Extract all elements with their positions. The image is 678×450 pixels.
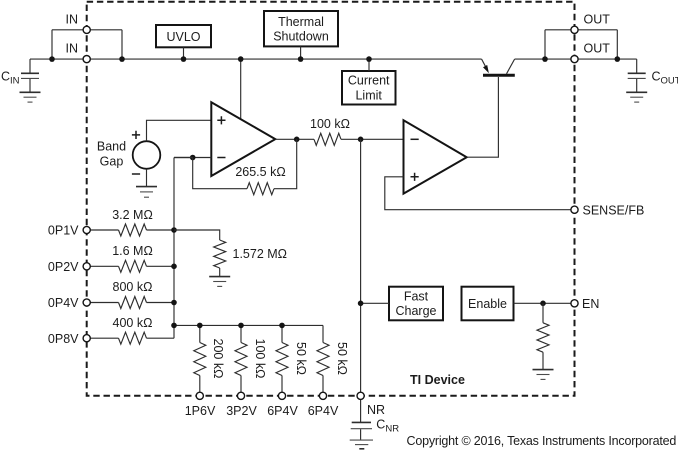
ground (CNR) — [350, 440, 373, 449]
wire R 3.2M to bus — [147, 229, 175, 231]
node 0P4V tap — [171, 300, 177, 306]
node 50k rail junction — [279, 323, 285, 329]
wire 1.572M branch — [174, 230, 220, 240]
wire NR vertical line — [360, 139, 362, 396]
node EN resistor junction — [540, 301, 546, 307]
resistor 200k (1P6V) — [194, 343, 206, 376]
wire rail to R 200k — [199, 325, 201, 342]
resistor 100k (between amps) — [314, 133, 341, 145]
node U1 output junction — [294, 137, 300, 143]
node current limit junction — [366, 56, 372, 62]
wire Current Limit stem — [368, 59, 370, 71]
wire R 50k b to 6P4V pin — [322, 376, 324, 396]
wire Fast Charge to NR line — [361, 302, 389, 304]
capacitor CIN — [21, 59, 39, 91]
pin OUT (bottom) — [571, 56, 578, 63]
svg-text:3.2 MΩ: 3.2 MΩ — [112, 208, 153, 222]
svg-text:Copyright © 2016, Texas Instru: Copyright © 2016, Texas Instruments Inco… — [407, 434, 677, 448]
wire band gap to ground — [146, 169, 148, 186]
svg-text:IN: IN — [66, 41, 79, 55]
pin 0P8V — [83, 335, 90, 342]
resistor EN pulldown — [537, 323, 549, 352]
wire U1 inverting input — [174, 157, 211, 159]
svg-text:100 kΩ: 100 kΩ — [310, 117, 350, 131]
wire R 400k to bus — [147, 337, 175, 339]
wire band gap to op-amp U1 + input — [147, 120, 212, 141]
wire 0P8V pin to R 400k — [87, 337, 119, 339]
band gap reference source — [133, 141, 161, 169]
resistor 800k (0P4V) — [119, 297, 147, 309]
pin 0P1V — [83, 226, 90, 233]
svg-text:6P4V: 6P4V — [267, 404, 298, 418]
wire U1 feedback drop — [274, 139, 297, 188]
svg-text:Enable: Enable — [468, 297, 507, 311]
svg-text:3P2V: 3P2V — [226, 404, 257, 418]
resistor 400k (0P8V) — [119, 332, 147, 344]
capacitor CNR — [351, 396, 372, 440]
transistor Q1 base bar — [483, 74, 515, 77]
capacitor COUT — [628, 59, 646, 91]
wire collector rail to COUT — [515, 58, 637, 60]
U1 plus sign — [217, 116, 225, 124]
svg-text:1.6 MΩ: 1.6 MΩ — [112, 244, 153, 258]
ground (1.572M) — [209, 277, 230, 287]
svg-text:IN: IN — [66, 13, 79, 27]
wire op-amp U1 power stem — [240, 59, 242, 119]
wire OUT1 branch (top output loop) — [545, 30, 617, 59]
node U1 supply junction — [238, 56, 244, 62]
node rail-bus junction — [171, 323, 177, 329]
node U1 inverting input junction — [190, 155, 196, 161]
op-amp U1 (error amp) — [211, 102, 275, 176]
wire R 50k a to 6P4V pin — [281, 376, 283, 396]
U2 plus sign — [411, 173, 419, 181]
pin EN — [571, 300, 578, 307]
svg-text:100 kΩ: 100 kΩ — [253, 339, 267, 379]
svg-text:Band: Band — [97, 140, 126, 154]
pin IN (top) — [83, 26, 90, 33]
wire divider bus from inverting node — [174, 158, 193, 339]
svg-text:Gap: Gap — [100, 154, 124, 168]
U2 minus sign — [411, 138, 419, 140]
Thermal Shutdown box — [264, 11, 338, 46]
node OUT loop left junction — [542, 56, 548, 62]
U1 minus sign — [217, 157, 225, 159]
pin 6P4V (a) — [278, 392, 285, 399]
node Fast Charge junction — [358, 301, 364, 307]
wire 0P4V pin to R 800k — [87, 302, 119, 304]
wire IN1 branch (top input loop) — [52, 30, 122, 59]
Enable box — [462, 287, 514, 321]
svg-text:EN: EN — [582, 297, 599, 311]
UVLO box — [156, 25, 211, 47]
svg-text:6P4V: 6P4V — [308, 404, 339, 418]
svg-text:SENSE/FB: SENSE/FB — [583, 203, 645, 217]
resistor 50k (6P4V b) — [317, 343, 329, 376]
svg-text:200 kΩ: 200 kΩ — [211, 339, 225, 379]
wire U1 output — [275, 138, 314, 140]
node 200k rail junction — [197, 323, 203, 329]
node IN loop left junction — [49, 56, 55, 62]
svg-text:400 kΩ: 400 kΩ — [113, 316, 153, 330]
svg-text:OUT: OUT — [584, 41, 611, 55]
wire R 1.572M to ground — [219, 268, 221, 276]
svg-text:UVLO: UVLO — [166, 30, 200, 44]
svg-text:50 kΩ: 50 kΩ — [294, 342, 308, 375]
transistor Q1 emitter with arrow — [482, 59, 487, 68]
pin 0P2V — [83, 263, 90, 270]
wire rail to R 50k a — [281, 325, 283, 342]
resistor 265.5k feedback — [247, 183, 274, 195]
op-amp U2 (buffer) — [404, 120, 467, 193]
node 0P2V tap — [171, 264, 177, 270]
svg-text:NR: NR — [367, 403, 385, 417]
TI Device dashed boundary box — [87, 2, 575, 396]
pin SENSE/FB — [571, 206, 578, 213]
wire 0P2V pin to R 1.6M — [87, 265, 119, 267]
wire R 100k to 3P2V pin — [240, 376, 242, 396]
svg-text:50 kΩ: 50 kΩ — [335, 342, 349, 375]
Fast Charge box — [389, 287, 443, 321]
pin 1P6V — [196, 392, 203, 399]
svg-text:Thermal: Thermal — [278, 15, 324, 29]
node thermal shutdown junction — [298, 56, 304, 62]
node OUT loop right junction — [615, 56, 621, 62]
wire EN node to pulldown resistor — [542, 303, 544, 323]
Current Limit box — [342, 71, 396, 105]
pin NR — [357, 392, 364, 399]
pin 3P2V — [237, 392, 244, 399]
svg-text:Limit: Limit — [355, 88, 382, 102]
pin IN (bottom) — [83, 56, 90, 63]
node 100k rail junction — [238, 323, 244, 329]
pin 6P4V (b) — [319, 392, 326, 399]
wire pulldown resistor to ground — [542, 352, 544, 369]
wire U2 output to pass transistor base — [467, 77, 499, 157]
wire Enable to EN pin — [514, 302, 575, 304]
svg-text:0P4V: 0P4V — [48, 296, 79, 310]
transistor Q1 collector — [507, 59, 515, 74]
node 0P1V tap — [171, 227, 177, 233]
svg-text:265.5 kΩ: 265.5 kΩ — [235, 165, 285, 179]
resistor 50k (6P4V a) — [276, 343, 288, 376]
wire main IN rail to emitter — [30, 58, 482, 60]
svg-text:Current: Current — [348, 74, 390, 88]
wire lower divider rail — [174, 324, 323, 326]
pin OUT (top) — [571, 26, 578, 33]
svg-text:0P8V: 0P8V — [48, 332, 79, 346]
svg-text:800 kΩ: 800 kΩ — [113, 280, 153, 294]
resistor 100k (3P2V) — [235, 343, 247, 376]
ground (EN resistor) — [533, 370, 554, 380]
svg-text:Fast: Fast — [404, 289, 429, 303]
wire rail to R 50k b — [322, 325, 324, 342]
svg-text:0P1V: 0P1V — [48, 224, 79, 238]
wire UVLO stem — [183, 47, 185, 59]
ground (COUT) — [626, 92, 647, 102]
wire 0P1V pin to R 3.2M — [87, 229, 119, 231]
node NR branch junction — [358, 137, 364, 143]
svg-text:Shutdown: Shutdown — [273, 30, 329, 44]
resistor 1.6M (0P2V) — [119, 260, 147, 272]
wire U2 non-inverting input to SENSE/FB — [385, 177, 571, 210]
node UVLO junction — [181, 56, 187, 62]
svg-text:OUT: OUT — [584, 13, 611, 27]
svg-text:0P2V: 0P2V — [48, 260, 79, 274]
node IN loop right junction — [119, 56, 125, 62]
wire Thermal Shutdown stem — [300, 46, 302, 59]
ground (CIN) — [20, 92, 41, 102]
wire R 200k to 1P6V pin — [199, 376, 201, 396]
wire rail to R 100k — [240, 325, 242, 342]
resistor 1.572M — [214, 240, 226, 268]
wire feedback return to inverting node — [193, 158, 247, 189]
svg-text:1P6V: 1P6V — [185, 404, 216, 418]
svg-text:1.572 MΩ: 1.572 MΩ — [233, 247, 288, 261]
svg-text:Charge: Charge — [396, 304, 437, 318]
pin 0P4V — [83, 299, 90, 306]
band gap plus sign — [132, 131, 140, 139]
wire to U2 inverting input — [341, 138, 404, 140]
ground (band gap) — [136, 187, 157, 198]
wire R 800k to bus — [147, 302, 175, 304]
band gap minus sign — [132, 173, 140, 175]
svg-text:TI Device: TI Device — [410, 373, 465, 387]
resistor 3.2M (0P1V) — [119, 224, 147, 236]
wire R 1.6M to bus — [147, 265, 175, 267]
